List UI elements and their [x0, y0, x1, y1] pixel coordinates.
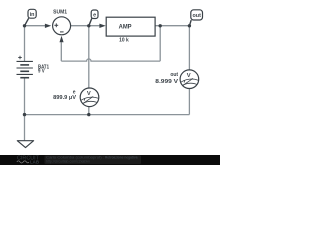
svg-text:10 k: 10 k [119, 37, 129, 43]
summer SUM1: body circle [53, 17, 71, 35]
node e: leader line [89, 18, 92, 25]
svg-text:AMP: AMP [119, 24, 132, 30]
svg-text:http://circuitlab.com/c2xabkn: http://circuitlab.com/c2xabkn [46, 160, 90, 164]
wire: node in to summer + input [25, 25, 46, 27]
wire: node out down to voltmeter VM2 [188, 26, 190, 70]
junction: node out corner dot [188, 24, 191, 27]
junction: node in corner dot [23, 24, 26, 27]
junction: battery to rail / ground dot [23, 113, 26, 116]
svg-text:out: out [193, 13, 202, 19]
voltmeter VM2: body circle [180, 70, 199, 89]
voltmeter VM1: body circle [80, 88, 99, 107]
wire: summer output to AMP input [71, 25, 100, 27]
arrowhead: input into summer [45, 24, 51, 28]
footer: credit text background [45, 155, 142, 164]
svg-text:9 V: 9 V [38, 69, 45, 75]
wire: voltmeter VM2 bottom to rail [188, 88, 190, 114]
arrowhead: feedback into summer minus [60, 36, 64, 43]
wire: battery negative down to ground rail [24, 78, 26, 115]
svg-text:V: V [87, 91, 91, 97]
junction: feedback tap dot [159, 24, 162, 27]
amplifier AMP: body box [106, 17, 155, 36]
svg-text:e: e [93, 12, 96, 18]
svg-text:Retroazione negativa: Retroazione negativa [105, 156, 138, 160]
svg-text:SUM1: SUM1 [53, 10, 67, 16]
node e: label box [91, 10, 98, 19]
wire: ground stem [24, 115, 26, 141]
wire: node in down to battery positive [24, 26, 26, 62]
node in: label box [28, 9, 36, 18]
wire: AMP output to node out [155, 25, 189, 27]
svg-text:in: in [30, 12, 35, 18]
footer: black credit bar [0, 155, 220, 165]
node in: leader line [25, 18, 29, 26]
wire: feedback vertical up to summer - input [60, 42, 62, 61]
ground symbol [17, 141, 33, 148]
summer SUM1: minus sign [60, 31, 64, 33]
wire: bottom ground rail [25, 114, 190, 116]
footer: CircuitLab logo wordmark [17, 156, 40, 165]
wire: voltmeter VM1 bottom to rail [88, 107, 90, 115]
node out: label box [191, 10, 203, 20]
svg-text:899.9 µV: 899.9 µV [53, 95, 76, 101]
summer SUM1: plus sign [54, 23, 58, 27]
arrowhead: error signal into AMP [99, 24, 105, 28]
svg-text:out: out [170, 72, 178, 78]
voltmeter VM2: meter face arcs and needle [181, 78, 198, 85]
junction: VM1 to rail dot [87, 113, 90, 116]
wire: feedback vertical from out junction [159, 26, 161, 61]
battery BAT1: plus polarity mark [18, 56, 22, 60]
svg-text:8.999 V: 8.999 V [155, 79, 178, 85]
junction: node e dot [87, 24, 90, 27]
voltmeter VM1: meter face arcs and needle [81, 96, 98, 103]
wire: feedback horizontal with hop over e branch [61, 59, 160, 61]
node out: leader line [189, 20, 191, 26]
wire: node e down to voltmeter VM1 [88, 26, 90, 88]
battery BAT1: plates [17, 61, 33, 77]
svg-text:LAB: LAB [30, 159, 39, 164]
svg-text:V: V [187, 73, 191, 79]
